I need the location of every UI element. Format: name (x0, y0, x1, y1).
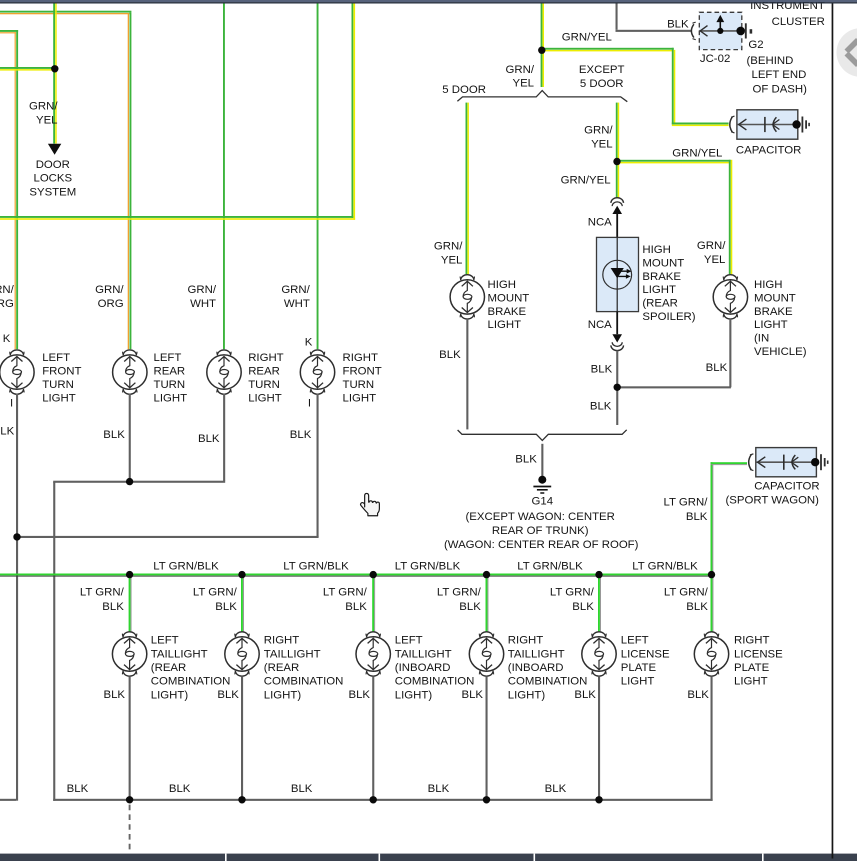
svg-text:G14: G14 (532, 496, 554, 508)
svg-text:LEFT: LEFT (42, 352, 70, 364)
label GRN/YEL (door locks wire) (29, 101, 58, 127)
svg-text:GRN/: GRN/ (506, 64, 535, 76)
label G14 location (444, 511, 639, 551)
wire LT GRN/BLK drop to RIGHT LICENSE PLATE LIGHT (711, 577, 714, 633)
svg-text:BLK: BLK (439, 349, 461, 361)
svg-text:LIGHT): LIGHT) (395, 689, 433, 701)
svg-text:LIGHT: LIGHT (642, 284, 676, 296)
svg-text:(REAR: (REAR (264, 662, 299, 674)
pin I left front turn light (10, 398, 13, 410)
wire GRN/YEL vertical riser at x353 (352, 4, 356, 220)
wire BLK bottom ground rail (53, 799, 712, 801)
label GRN/ORG col2 (95, 284, 124, 310)
svg-text:BLK: BLK (667, 19, 689, 31)
label BLK (in-vehicle light) (706, 362, 728, 374)
svg-text:TAILLIGHT: TAILLIGHT (264, 648, 321, 660)
brace wire split 5-door/except-5-door (457, 91, 627, 102)
wire GRN/YEL 5-door branch (466, 103, 469, 275)
svg-text:TURN: TURN (248, 379, 280, 391)
capacitor (sport wagon) (749, 448, 828, 477)
svg-text:FRONT: FRONT (343, 366, 382, 378)
label BLK below bulb 1 (103, 689, 125, 701)
LED module HIGH MOUNT BRAKE LIGHT (REAR SPOILER) (597, 237, 639, 311)
wire BLK left rear turn light down (129, 393, 131, 481)
svg-text:LIGHT: LIGHT (488, 319, 522, 331)
label BLK col3 (198, 433, 220, 445)
wire GRN/YEL long horizontal bus (0, 216, 355, 220)
wire LT GRN/BLK drop to RIGHT TAILLIGHT (INBOARD COMBINATION LIGHT) (486, 577, 489, 633)
wire BLK horizontal y481.8 (53, 481, 225, 483)
label BLK bottom rail 4 (428, 783, 450, 795)
bulb LEFT REAR TURN LIGHT (113, 350, 147, 394)
svg-text:BLK: BLK (217, 689, 239, 701)
svg-text:LT GRN/BLK: LT GRN/BLK (632, 561, 698, 573)
svg-text:BLK: BLK (102, 601, 124, 613)
svg-text:LIGHT: LIGHT (343, 392, 377, 404)
svg-text:TURN: TURN (42, 379, 74, 391)
svg-text:HIGH: HIGH (754, 279, 782, 291)
svg-text:LEFT: LEFT (154, 352, 182, 364)
svg-text:LT GRN/BLK: LT GRN/BLK (517, 561, 583, 573)
svg-text:G2: G2 (748, 39, 763, 51)
wire GRN/WHT vertical to right front turn light (317, 4, 319, 350)
bulb RIGHT REAR TURN LIGHT (207, 350, 241, 394)
wire BLK below LEFT TAILLIGHT (REAR COMBINATION LIGHT) (129, 677, 131, 801)
svg-text:WHT: WHT (284, 298, 310, 310)
svg-text:LIGHT): LIGHT) (151, 689, 189, 701)
svg-text:LIGHT): LIGHT) (264, 689, 302, 701)
svg-text:RIGHT: RIGHT (264, 635, 299, 647)
svg-text:BLK: BLK (591, 364, 613, 376)
svg-text:MOUNT: MOUNT (642, 257, 684, 269)
svg-text:LIGHT: LIGHT (42, 392, 76, 404)
svg-text:BLK: BLK (345, 601, 367, 613)
wire BLK exit left at bottom (0, 799, 16, 801)
svg-text:K: K (305, 337, 313, 349)
svg-text:BRAKE: BRAKE (754, 306, 793, 318)
svg-text:LT GRN/: LT GRN/ (193, 587, 238, 599)
node C junction dot (613, 158, 620, 165)
svg-text:LEFT: LEFT (395, 635, 423, 647)
svg-text:MOUNT: MOUNT (754, 292, 796, 304)
bottom rail junction dot 1 (126, 796, 133, 803)
label BLK bottom rail 2 (169, 783, 191, 795)
svg-text:LT GRN/: LT GRN/ (80, 587, 125, 599)
label BLK bottom rail 1 (67, 783, 89, 795)
label BLK (right of brace) (590, 401, 612, 413)
svg-text:I: I (10, 398, 13, 410)
wire BLK below LEFT TAILLIGHT (INBOARD COMBINATION LIGHT) (372, 677, 374, 801)
svg-text:CLUSTER: CLUSTER (772, 16, 825, 28)
svg-text:YEL: YEL (441, 254, 463, 266)
node D junction dot (614, 384, 621, 391)
svg-text:GRN/YEL: GRN/YEL (672, 148, 722, 160)
arrow NCA down (612, 334, 622, 342)
wire BLK below LEFT LICENSE PLATE LIGHT (598, 677, 600, 801)
svg-text:BLK: BLK (169, 783, 191, 795)
svg-text:BLK: BLK (574, 689, 596, 701)
label GRN/YEL (node C horizontal) (672, 148, 722, 160)
svg-text:TAILLIGHT: TAILLIGHT (151, 648, 208, 660)
svg-text:BLK: BLK (706, 362, 728, 374)
floating nav widget (837, 28, 857, 77)
svg-text:RIGHT: RIGHT (508, 635, 543, 647)
label EXCEPT 5 DOOR (579, 64, 625, 90)
svg-text:BLK: BLK (428, 783, 450, 795)
label GRN/WHT col3 (188, 284, 217, 310)
node dot at (129.5,481.8) (126, 478, 133, 485)
bulb RIGHT TAILLIGHT (REAR COMBINATION LIGHT) (225, 632, 259, 676)
wire GRN/ORG vertical to left front turn light (15, 30, 19, 349)
svg-text:CAPACITOR: CAPACITOR (736, 144, 801, 156)
svg-text:BLK: BLK (686, 601, 708, 613)
rail junction dot 5 (595, 571, 602, 578)
svg-text:COMBINATION: COMBINATION (264, 676, 344, 688)
wire BLK vertical x54 to bottom rail (53, 482, 55, 801)
label LT GRN/BLK rail segment 5 (632, 561, 698, 573)
wire GRN/WHT vertical to right rear turn light (223, 4, 225, 350)
label RIGHT TAILLIGHT (REAR COMBINATION LIGHT) (264, 635, 344, 702)
svg-text:RIGHT: RIGHT (343, 352, 378, 364)
label RIGHT FRONT TURN LIGHT (343, 352, 382, 404)
label LT GRN/BLK drop 3 (323, 587, 368, 613)
bulb RIGHT LICENSE PLATE LIGHT (694, 632, 728, 676)
svg-text:TURN: TURN (343, 379, 375, 391)
svg-text:BLK: BLK (290, 429, 312, 441)
label BLK bottom rail 5 (545, 783, 567, 795)
wire LT GRN/BLK to sport wagon capacitor (711, 462, 748, 574)
wire GRN/YEL vertical to door locks system (53, 4, 57, 144)
svg-text:(REAR: (REAR (642, 298, 677, 310)
label BLK below bulb 5 (574, 689, 596, 701)
svg-text:LT GRN/: LT GRN/ (323, 587, 368, 599)
label RIGHT TAILLIGHT (INBOARD COMBINATION LIGHT) (508, 635, 588, 702)
label G14 (532, 496, 554, 508)
svg-text:I: I (308, 398, 311, 410)
svg-text:(INBOARD: (INBOARD (508, 662, 564, 674)
label GRN/YEL (spoiler feed) (561, 175, 611, 187)
svg-text:RIGHT: RIGHT (734, 635, 769, 647)
bottom status bar (0, 854, 857, 861)
svg-text:LT GRN/: LT GRN/ (437, 587, 482, 599)
svg-text:ORG: ORG (0, 298, 14, 310)
svg-text:YEL: YEL (512, 78, 534, 90)
svg-text:GRN/: GRN/ (0, 284, 15, 296)
label GRN/WHT col4 (281, 284, 310, 310)
bulb HIGH MOUNT BRAKE LIGHT (IN VEHICLE) (713, 275, 747, 319)
wire GRN/YEL node C to in-vehicle brake light (617, 160, 732, 274)
svg-text:LEFT: LEFT (151, 635, 179, 647)
svg-text:(INBOARD: (INBOARD (395, 662, 451, 674)
svg-text:BLK: BLK (198, 433, 220, 445)
label BLK below bulb 6 (687, 689, 709, 701)
label DOOR LOCKS SYSTEM (29, 159, 76, 198)
svg-text:COMBINATION: COMBINATION (151, 676, 231, 688)
svg-text:BLK: BLK (687, 689, 709, 701)
wire BLK spoiler ground segment (616, 351, 618, 387)
svg-text:LEFT END: LEFT END (752, 69, 807, 81)
wire LT GRN/BLK drop to LEFT LICENSE PLATE LIGHT (598, 577, 601, 633)
label LT GRN/BLK drop 5 (550, 587, 595, 613)
svg-text:BLK: BLK (459, 601, 481, 613)
svg-text:HIGH: HIGH (488, 279, 516, 291)
svg-text:GRN/: GRN/ (95, 284, 124, 296)
svg-text:LT GRN/: LT GRN/ (664, 497, 709, 509)
wire BLK node D down to brace (616, 387, 618, 425)
svg-text:LEFT: LEFT (621, 635, 649, 647)
svg-text:BRAKE: BRAKE (488, 306, 527, 318)
wire BLK right rear turn light down (223, 393, 225, 481)
svg-text:LT GRN/: LT GRN/ (550, 587, 595, 599)
svg-text:BRAKE: BRAKE (642, 271, 681, 283)
label BLK below bulb 3 (348, 689, 370, 701)
label JC-02 (700, 53, 730, 65)
wire LT GRN/BLK drop to LEFT TAILLIGHT (REAR COMBINATION LIGHT) (129, 577, 132, 633)
svg-text:BLK: BLK (67, 783, 89, 795)
bulb LEFT LICENSE PLATE LIGHT (582, 632, 616, 676)
svg-text:BLK: BLK (515, 454, 537, 466)
label LT GRN/BLK rail segment 1 (153, 561, 219, 573)
capacitor (top right) (730, 110, 809, 139)
wire GRN/ORG horizontal feed (to left front turn light) (0, 30, 18, 33)
label LT GRN/BLK (capacitor wire) (664, 497, 709, 523)
rail junction dot 2 (238, 571, 245, 578)
label BLK (instrument cluster) (667, 19, 689, 31)
pin K left front turn light (3, 333, 11, 345)
svg-text:JC-02: JC-02 (700, 53, 730, 65)
bulb LEFT TAILLIGHT (REAR COMBINATION LIGHT) (112, 632, 146, 676)
svg-text:SPOILER): SPOILER) (642, 311, 695, 323)
svg-text:(IN: (IN (754, 333, 769, 345)
svg-text:K: K (3, 333, 11, 345)
svg-text:YEL: YEL (36, 114, 58, 126)
node B junction dot (538, 47, 545, 54)
label BLK (to G14) (515, 454, 537, 466)
wire LT GRN/BLK drop to RIGHT TAILLIGHT (REAR COMBINATION LIGHT) (241, 577, 244, 633)
label LT GRN/BLK drop 6 (664, 587, 709, 613)
wire LT GRN/BLK taillight rail (0, 574, 713, 577)
label LT GRN/BLK drop 2 (193, 587, 238, 613)
label HIGH MOUNT BRAKE LIGHT (IN VEHICLE) (754, 279, 807, 358)
svg-text:BLK: BLK (348, 689, 370, 701)
svg-text:GRN/: GRN/ (434, 241, 463, 253)
label BLK below bulb 2 (217, 689, 239, 701)
diagram page right border (832, 4, 834, 859)
wire BLK from instrument cluster (616, 4, 692, 32)
svg-text:EXCEPT: EXCEPT (579, 64, 625, 76)
label LEFT REAR TURN LIGHT (154, 352, 188, 404)
connector (spoiler bottom) (611, 342, 624, 350)
svg-text:DOOR: DOOR (36, 159, 70, 171)
wire GRN/ORG vertical to left rear turn light (128, 13, 132, 350)
svg-text:LIGHT: LIGHT (248, 392, 282, 404)
label GRN/ORG col1 (0, 284, 15, 310)
bulb RIGHT TAILLIGHT (INBOARD COMBINATION LIGHT) (469, 632, 503, 676)
svg-text:(WAGON: CENTER REAR OF ROOF): (WAGON: CENTER REAR OF ROOF) (444, 539, 639, 551)
svg-text:BLK: BLK (291, 783, 313, 795)
wire BLK below 5-door brake light (466, 320, 468, 430)
label LT GRN/BLK drop 1 (80, 587, 125, 613)
svg-text:REAR OF TRUNK): REAR OF TRUNK) (492, 525, 589, 537)
bulb RIGHT FRONT TURN LIGHT (300, 350, 334, 394)
svg-text:TAILLIGHT: TAILLIGHT (395, 648, 452, 660)
svg-text:LT GRN/BLK: LT GRN/BLK (283, 561, 349, 573)
node A junction dot (51, 65, 58, 72)
svg-text:FRONT: FRONT (42, 366, 81, 378)
label LEFT FRONT TURN LIGHT (42, 352, 81, 404)
ground G14 symbol (533, 476, 551, 493)
wire BLK horizontal y537 (right front turn light) (17, 536, 319, 538)
wire BLK below RIGHT TAILLIGHT (INBOARD COMBINATION LIGHT) (486, 677, 488, 801)
rail junction dot 1 (126, 571, 133, 578)
svg-text:LICENSE: LICENSE (621, 648, 670, 660)
label NCA (bottom) (588, 319, 612, 331)
svg-text:GRN/: GRN/ (188, 284, 217, 296)
wire GRN/YEL node B down to split brace (541, 50, 544, 87)
pin I right front turn light (308, 398, 311, 410)
wire BLK node D to in-vehicle light (617, 320, 731, 389)
svg-text:5 DOOR: 5 DOOR (580, 78, 624, 90)
wire black spoiler bottom segment (616, 312, 618, 335)
label GRN/YEL (node B horizontal) (562, 32, 612, 44)
wire GRN/YEL riser to node B (541, 4, 544, 51)
label BLK (5-door brake light) (439, 349, 461, 361)
label LEFT TAILLIGHT (INBOARD COMBINATION LIGHT) (395, 635, 475, 702)
svg-text:(REAR: (REAR (151, 662, 186, 674)
label HIGH MOUNT BRAKE LIGHT (488, 279, 530, 331)
wire GRN/YEL except-5-door branch (616, 103, 619, 162)
svg-text:ORG: ORG (98, 298, 124, 310)
svg-text:NCA: NCA (588, 319, 612, 331)
label INSTRUMENT CLUSTER (750, 0, 825, 28)
svg-text:LIGHT: LIGHT (621, 676, 655, 688)
arrow to door locks system (48, 144, 61, 155)
wire black spoiler top segment (616, 213, 618, 238)
svg-text:YEL: YEL (591, 138, 613, 150)
node dot at (17,537) (13, 533, 20, 540)
svg-text:MOUNT: MOUNT (488, 292, 530, 304)
svg-text:HIGH: HIGH (642, 244, 670, 256)
svg-text:NCA: NCA (588, 217, 612, 229)
arrow NCA up (612, 206, 622, 214)
svg-text:VEHICLE): VEHICLE) (754, 346, 807, 358)
svg-text:GRN/: GRN/ (584, 125, 613, 137)
rail junction dot 6 (708, 571, 715, 578)
wire GRN/YEL node B to capacitor (542, 48, 729, 126)
wire BLK below RIGHT LICENSE PLATE LIGHT (711, 677, 713, 801)
rail junction dot 4 (483, 571, 490, 578)
wire BLK right front turn light down (317, 393, 319, 537)
label RIGHT REAR TURN LIGHT (248, 352, 283, 404)
label GRN/YEL (in-vehicle riser) (697, 240, 726, 266)
svg-text:LT GRN/BLK: LT GRN/BLK (395, 561, 461, 573)
svg-text:BLK: BLK (572, 601, 594, 613)
svg-text:BLK: BLK (545, 783, 567, 795)
svg-text:REAR: REAR (154, 366, 186, 378)
label CAPACITOR (SPORT WAGON) (726, 481, 820, 507)
label BLK below bulb 4 (461, 689, 483, 701)
bottom rail junction dot 5 (595, 796, 602, 803)
mouse hand cursor (361, 493, 380, 515)
bulb HIGH MOUNT BRAKE LIGHT (5-door) (450, 275, 484, 319)
svg-text:LIGHT: LIGHT (154, 392, 188, 404)
label LT GRN/BLK rail segment 4 (517, 561, 583, 573)
svg-text:GRN/: GRN/ (281, 284, 310, 296)
svg-text:5 DOOR: 5 DOOR (442, 84, 486, 96)
pin K right front turn light (305, 337, 313, 349)
bottom rail junction dot 2 (238, 796, 245, 803)
svg-text:PLATE: PLATE (734, 662, 770, 674)
svg-text:BLK: BLK (215, 601, 237, 613)
label LT GRN/BLK rail segment 2 (283, 561, 349, 573)
svg-text:LIGHT): LIGHT) (508, 689, 546, 701)
label BLK bottom rail 3 (291, 783, 313, 795)
brace ground merge (458, 430, 627, 441)
label LT GRN/BLK drop 4 (437, 587, 482, 613)
svg-text:BLK: BLK (103, 429, 125, 441)
svg-text:OF DASH): OF DASH) (753, 84, 808, 96)
svg-text:LT GRN/: LT GRN/ (664, 587, 709, 599)
svg-text:RIGHT: RIGHT (248, 352, 283, 364)
svg-text:SYSTEM: SYSTEM (29, 187, 76, 199)
bulb LEFT TAILLIGHT (INBOARD COMBINATION LIGHT) (356, 632, 390, 676)
label BLK (spoiler) (591, 364, 613, 376)
label RIGHT LICENSE PLATE LIGHT (734, 635, 783, 688)
wire GRN/YEL horizontal into node A (0, 67, 54, 71)
browser top toolbar edge (0, 0, 857, 4)
svg-text:CAPACITOR: CAPACITOR (754, 481, 819, 493)
label CAPACITOR (736, 144, 801, 156)
svg-text:TAILLIGHT: TAILLIGHT (508, 648, 565, 660)
svg-text:PLATE: PLATE (621, 662, 657, 674)
wire BLK to ground G14 (541, 444, 543, 476)
connector (spoiler top) (611, 198, 624, 206)
label BLK col2 (103, 429, 125, 441)
rail junction dot 3 (370, 571, 377, 578)
wire BLK below RIGHT TAILLIGHT (REAR COMBINATION LIGHT) (241, 677, 243, 801)
svg-text:BLK: BLK (0, 426, 15, 438)
label GRN/YEL (left of node B) (506, 64, 535, 90)
svg-text:BLK: BLK (686, 511, 708, 523)
dashed continuation wire (129, 805, 131, 854)
svg-text:BLK: BLK (590, 401, 612, 413)
svg-text:COMBINATION: COMBINATION (395, 676, 475, 688)
label NCA (top) (588, 217, 612, 229)
svg-text:(EXCEPT WAGON: CENTER: (EXCEPT WAGON: CENTER (466, 511, 615, 523)
label 5 DOOR (442, 84, 486, 96)
svg-text:BLK: BLK (103, 689, 125, 701)
joint connector JC-02 (G2 ground) (691, 12, 752, 49)
svg-text:TURN: TURN (154, 379, 186, 391)
svg-text:LIGHT: LIGHT (754, 319, 788, 331)
svg-text:YEL: YEL (704, 254, 726, 266)
wire GRN/YEL node C down to spoiler connector (616, 162, 619, 199)
svg-text:GRN/: GRN/ (29, 101, 58, 113)
bulb LEFT FRONT TURN LIGHT (0, 350, 34, 394)
label LEFT LICENSE PLATE LIGHT (621, 635, 670, 688)
svg-text:WHT: WHT (190, 298, 216, 310)
svg-text:(SPORT WAGON): (SPORT WAGON) (726, 495, 820, 507)
svg-text:LOCKS: LOCKS (33, 173, 72, 185)
label G2 (BEHIND LEFT END OF DASH) (747, 39, 808, 95)
svg-text:GRN/YEL: GRN/YEL (561, 175, 611, 187)
wire GRN/ORG horizontal feed (to left rear turn light) (0, 11, 131, 15)
label LEFT TAILLIGHT (REAR COMBINATION LIGHT) (151, 635, 231, 702)
wire BLK left front turn light down (16, 393, 18, 800)
label GRN/YEL (except branch) (584, 125, 613, 151)
svg-text:BLK: BLK (461, 689, 483, 701)
svg-text:LICENSE: LICENSE (734, 648, 783, 660)
